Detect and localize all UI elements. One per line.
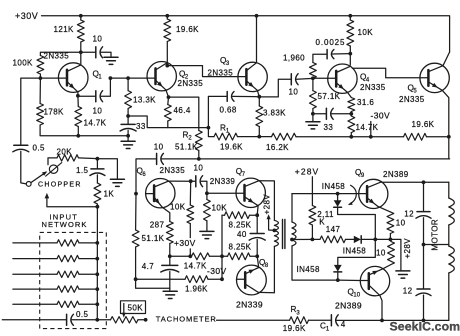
svg-text:51.1K: 51.1K bbox=[175, 143, 198, 152]
resistor 121K bbox=[80, 16, 82, 20]
svg-text:50K: 50K bbox=[128, 304, 144, 313]
svg-text:10: 10 bbox=[93, 107, 103, 116]
wire Q1 base / chopper column bbox=[21, 78, 41, 145]
resistor 51.1K (Q6 base) bbox=[135, 194, 137, 230]
svg-text:+28V: +28V bbox=[295, 166, 320, 176]
wire 8.25K left rail bbox=[221, 215, 223, 279]
wire Q5 collector from rail bbox=[443, 52, 450, 66]
svg-text:0.5: 0.5 bbox=[76, 310, 88, 319]
svg-text:10: 10 bbox=[154, 142, 164, 151]
svg-text:+28V: +28V bbox=[403, 238, 412, 259]
resistor input ladder row 2 bbox=[13, 258, 57, 260]
node 0.68/R1 bbox=[207, 126, 211, 130]
resistor 31.6 bbox=[348, 98, 355, 112]
svg-text:51.1K: 51.1K bbox=[142, 234, 165, 243]
svg-text:+30V: +30V bbox=[15, 11, 38, 21]
svg-text:K: K bbox=[319, 217, 325, 226]
capacitor 10 (Q6 to Q7) bbox=[191, 180, 196, 182]
svg-text:10: 10 bbox=[353, 293, 360, 299]
svg-text:40: 40 bbox=[237, 230, 247, 239]
svg-text:2N335: 2N335 bbox=[178, 79, 204, 88]
svg-text:46.4: 46.4 bbox=[174, 106, 191, 115]
svg-text:2N339: 2N339 bbox=[236, 300, 263, 310]
capacitor 0.5 (ladder bottom row) bbox=[2, 319, 66, 321]
transformer T1 core bbox=[282, 220, 284, 249]
capacitor C1 4 bbox=[330, 315, 332, 326]
resistor 1,960 bbox=[310, 63, 317, 79]
ground (Q6 emitter) bbox=[163, 290, 177, 292]
wire -30V bus bbox=[351, 136, 403, 138]
svg-text:19.6K: 19.6K bbox=[283, 324, 306, 333]
resistor 19.6K (Q5 emitter) bbox=[404, 133, 427, 140]
svg-text:19.6K: 19.6K bbox=[412, 120, 435, 129]
resistor input ladder row 1 bbox=[13, 242, 57, 244]
resistor 287 bbox=[166, 222, 173, 244]
resistor 13.3K bbox=[127, 78, 129, 91]
svg-text:121K: 121K bbox=[54, 25, 75, 34]
svg-text:20K: 20K bbox=[57, 148, 73, 157]
svg-text:10: 10 bbox=[289, 87, 299, 96]
svg-text:16.2K: 16.2K bbox=[266, 143, 289, 152]
svg-text:287: 287 bbox=[150, 220, 165, 229]
capacitor 33 (Q4 emitter) bbox=[313, 113, 326, 115]
wire chopper contact slash bbox=[46, 163, 62, 177]
resistor 19.6K (Q2 collector) bbox=[166, 16, 168, 19]
wire to Q7 base bbox=[207, 192, 236, 194]
svg-text:NETWORK: NETWORK bbox=[42, 220, 88, 229]
capacitor 0.5 (input) bbox=[14, 144, 28, 146]
resistor 14.7K (Q1 emitter) bbox=[77, 96, 79, 107]
wire Q10 base bbox=[338, 279, 361, 281]
wire -30V stub bbox=[370, 122, 372, 137]
wire Q1 emitter bbox=[77, 92, 79, 96]
wire Q2 emitter bbox=[166, 90, 169, 97]
wire R1 to 3.83K node bbox=[238, 136, 272, 138]
ground (collector bypass) bbox=[104, 56, 118, 58]
svg-text:10: 10 bbox=[396, 219, 406, 228]
resistor 10 (Q9 emitter) bbox=[387, 212, 394, 234]
svg-text:147: 147 bbox=[326, 225, 341, 234]
capacitor 10 (Q3 emitter to Q4 base) bbox=[259, 79, 291, 97]
resistor 3.83K bbox=[258, 97, 260, 106]
wire Q3 emitter bbox=[257, 90, 259, 96]
wire to +28V ground stub bbox=[375, 239, 401, 270]
svg-text:0.68: 0.68 bbox=[220, 106, 237, 115]
svg-text:19.6K: 19.6K bbox=[176, 25, 199, 34]
wire motor mid link bbox=[424, 244, 449, 246]
svg-text:1.5: 1.5 bbox=[76, 166, 88, 175]
wire ground branch (1.5 node) bbox=[97, 159, 117, 179]
capacitor 10 (Q1 collector bypass) bbox=[81, 51, 96, 53]
svg-text:57.1K: 57.1K bbox=[318, 92, 341, 101]
resistor input ladder row 3 bbox=[13, 273, 57, 275]
wire Q1 collector bbox=[80, 52, 82, 65]
wire Q8 collector to transformer bbox=[258, 246, 274, 292]
capacitor 12 (upper) bbox=[423, 182, 425, 211]
svg-text:2N335: 2N335 bbox=[44, 52, 70, 61]
ground (chopper node) bbox=[110, 178, 124, 180]
capacitor 1.5 bbox=[96, 159, 98, 169]
wire secondary top to Q9 base bbox=[292, 193, 359, 195]
resistor 2.11K bbox=[309, 206, 316, 226]
wire 100K top to collector node bbox=[40, 52, 80, 55]
svg-text:-30V: -30V bbox=[207, 266, 227, 276]
svg-text:10K: 10K bbox=[358, 28, 374, 37]
svg-text:TACHOMETER: TACHOMETER bbox=[156, 315, 217, 324]
wire Q4 collector to Q5 base bbox=[352, 68, 420, 77]
wire 13.3K node to 46.4/R2 node bbox=[128, 116, 208, 128]
resistor R1 19.6K bbox=[208, 128, 214, 137]
capacitor 33 (Q2 emitter bypass) bbox=[121, 123, 135, 125]
resistor 14.7K (Q4 emitter) bbox=[350, 114, 352, 116]
wire Q9 collector bbox=[382, 181, 449, 184]
resistor 10 (Q10 feed) bbox=[389, 239, 392, 241]
wire Q5 emitter bbox=[442, 90, 449, 137]
capacitor 10 (feedback) bbox=[156, 153, 158, 164]
capacitor 40 bbox=[256, 215, 258, 233]
svg-text:3.83K: 3.83K bbox=[263, 108, 286, 117]
svg-text:2N389: 2N389 bbox=[335, 301, 362, 311]
wire Q6 collector bbox=[169, 180, 191, 182]
wire diode cathode to 10-ohm node bbox=[338, 207, 376, 239]
wire Q7 collector to transformer bbox=[259, 181, 274, 221]
resistor 57.1K bbox=[312, 78, 314, 90]
svg-text:8.25K: 8.25K bbox=[229, 242, 252, 251]
svg-text:2N335: 2N335 bbox=[399, 95, 425, 104]
svg-text:12: 12 bbox=[404, 209, 414, 218]
ground (57.1K) bbox=[306, 121, 320, 123]
svg-text:IN458: IN458 bbox=[343, 247, 366, 256]
svg-text:+30V: +30V bbox=[174, 238, 196, 248]
svg-text:8.25K: 8.25K bbox=[229, 221, 252, 230]
node +28V center tap bbox=[273, 229, 277, 233]
resistor 1K bbox=[96, 175, 98, 183]
resistor 46.4 bbox=[167, 97, 170, 104]
wire 1960 top bbox=[313, 54, 327, 62]
svg-text:1,960: 1,960 bbox=[283, 53, 305, 62]
svg-text:2N335: 2N335 bbox=[360, 83, 386, 92]
svg-text:1K: 1K bbox=[104, 190, 115, 199]
resistor 10K (Q7 base) bbox=[206, 193, 208, 199]
wire pot wiper bbox=[123, 304, 125, 315]
resistor 16.2K bbox=[272, 133, 297, 140]
resistor input ladder row 5 bbox=[13, 303, 57, 305]
wire Q2 base bbox=[110, 77, 147, 79]
svg-text:0.5: 0.5 bbox=[33, 144, 45, 153]
wire to Q6 base bbox=[136, 159, 157, 194]
svg-text:1.96K: 1.96K bbox=[185, 284, 208, 293]
svg-text:33: 33 bbox=[136, 122, 146, 131]
wire 16.2K to -30V node bbox=[296, 136, 351, 138]
svg-text:-30V: -30V bbox=[371, 111, 391, 121]
wire +30V top rail bbox=[42, 16, 450, 52]
svg-text:13.3K: 13.3K bbox=[133, 95, 156, 104]
svg-text:2N389: 2N389 bbox=[383, 170, 409, 179]
wire Q9 emitter bbox=[378, 207, 390, 212]
svg-text:2N339: 2N339 bbox=[210, 177, 236, 186]
wire to Q2 base line bbox=[101, 78, 110, 96]
ground (33 bypass) bbox=[121, 140, 135, 142]
node Q1 base bbox=[39, 76, 43, 80]
resistor 14.7K (bottom) bbox=[192, 253, 210, 260]
wire input arrow to chopper bbox=[47, 198, 98, 207]
capacitor 0.0025 bbox=[326, 50, 328, 59]
wire Q7 emitter bbox=[256, 206, 259, 216]
capacitor 10 (Q1 emitter coupling) bbox=[78, 95, 96, 97]
svg-text:0.0025: 0.0025 bbox=[316, 38, 346, 47]
wire to Q10 emitter bbox=[383, 265, 391, 269]
wire Q2 collector to Q3 base bbox=[167, 66, 238, 77]
svg-text:100K: 100K bbox=[13, 59, 34, 68]
resistor 10K (Q6 collector load) bbox=[189, 181, 191, 205]
wire Q8 emitter up bbox=[257, 256, 259, 267]
svg-text:IN458: IN458 bbox=[297, 265, 320, 274]
node Q6 base bbox=[134, 192, 138, 196]
wire +30V bus (Q6 emitter row) bbox=[170, 255, 192, 257]
wire to ground bbox=[101, 52, 111, 56]
capacitor 12 (lower) bbox=[417, 288, 430, 290]
svg-text:10: 10 bbox=[93, 34, 103, 43]
wire bottom return line bbox=[217, 319, 290, 321]
motor winding bbox=[448, 182, 450, 198]
svg-text:10K: 10K bbox=[212, 203, 228, 212]
svg-text:10: 10 bbox=[194, 164, 204, 173]
resistor 8.25K (upper) bbox=[222, 214, 225, 216]
wire Q10 collector down bbox=[380, 295, 382, 320]
capacitor 0.68 bbox=[208, 96, 227, 127]
svg-text:MOTOR: MOTOR bbox=[430, 219, 439, 251]
resistor 1.96K bbox=[136, 278, 185, 280]
wire emitter ground bus bbox=[40, 125, 128, 136]
resistor input ladder row 4 bbox=[13, 288, 57, 290]
node R2/feedback bbox=[197, 157, 201, 161]
svg-text:2N335: 2N335 bbox=[208, 69, 234, 78]
resistor R3 19.6K bbox=[290, 317, 309, 324]
svg-text:4.7: 4.7 bbox=[142, 262, 154, 271]
capacitor 4.7 bbox=[169, 256, 171, 265]
wire Q2 emitter to R2 bbox=[169, 97, 199, 128]
resistor 20K bbox=[48, 158, 57, 165]
wire secondary tap bus bbox=[292, 238, 320, 240]
chopper switch bbox=[26, 182, 31, 187]
wire Q6 emitter bbox=[162, 207, 170, 221]
wire feedback line (Q5 emitter to Q6 base) bbox=[448, 137, 450, 159]
svg-text:IN458: IN458 bbox=[322, 182, 345, 191]
annotation arrow (IN458) bbox=[349, 185, 356, 204]
wire secondary bottom to Q10 base rail bbox=[292, 246, 338, 280]
svg-text:+28V: +28V bbox=[263, 194, 272, 215]
input network dashed box bbox=[40, 232, 107, 328]
wire chopper lever bbox=[31, 172, 46, 182]
resistor 8.25K (lower) bbox=[222, 255, 228, 257]
svg-text:14.7K: 14.7K bbox=[184, 261, 207, 270]
transformer T1 secondary bbox=[291, 194, 293, 222]
svg-text:12: 12 bbox=[403, 287, 413, 296]
ground (Q7 base 10K) bbox=[200, 230, 214, 232]
wire Q3 collector bbox=[256, 16, 258, 63]
transformer T1 primary bbox=[274, 220, 278, 230]
resistor 10K (Q4 collector) bbox=[349, 16, 351, 20]
svg-text:10: 10 bbox=[376, 249, 386, 258]
wire to Q4 base bbox=[313, 77, 328, 79]
potentiometer 50K tachometer bbox=[97, 319, 110, 321]
svg-text:4: 4 bbox=[341, 320, 346, 329]
svg-text:2N335: 2N335 bbox=[160, 166, 186, 175]
wire input ladder bus bbox=[96, 207, 98, 320]
svg-text:31.6: 31.6 bbox=[357, 98, 374, 107]
svg-text:178K: 178K bbox=[44, 107, 65, 116]
ground (+28V return) bbox=[396, 270, 410, 272]
svg-text:14.7K: 14.7K bbox=[84, 119, 107, 128]
resistor 178K bbox=[39, 78, 41, 103]
svg-text:10K: 10K bbox=[170, 203, 186, 212]
svg-text:SeekIC.com: SeekIC.com bbox=[390, 320, 460, 334]
svg-text:19.6K: 19.6K bbox=[220, 143, 243, 152]
svg-text:33: 33 bbox=[324, 123, 334, 132]
resistor 147 bbox=[320, 236, 346, 243]
svg-text:CHOPPER: CHOPPER bbox=[38, 181, 82, 188]
wire Q4 emitter bbox=[348, 92, 352, 97]
svg-text:14.7K: 14.7K bbox=[356, 123, 379, 132]
